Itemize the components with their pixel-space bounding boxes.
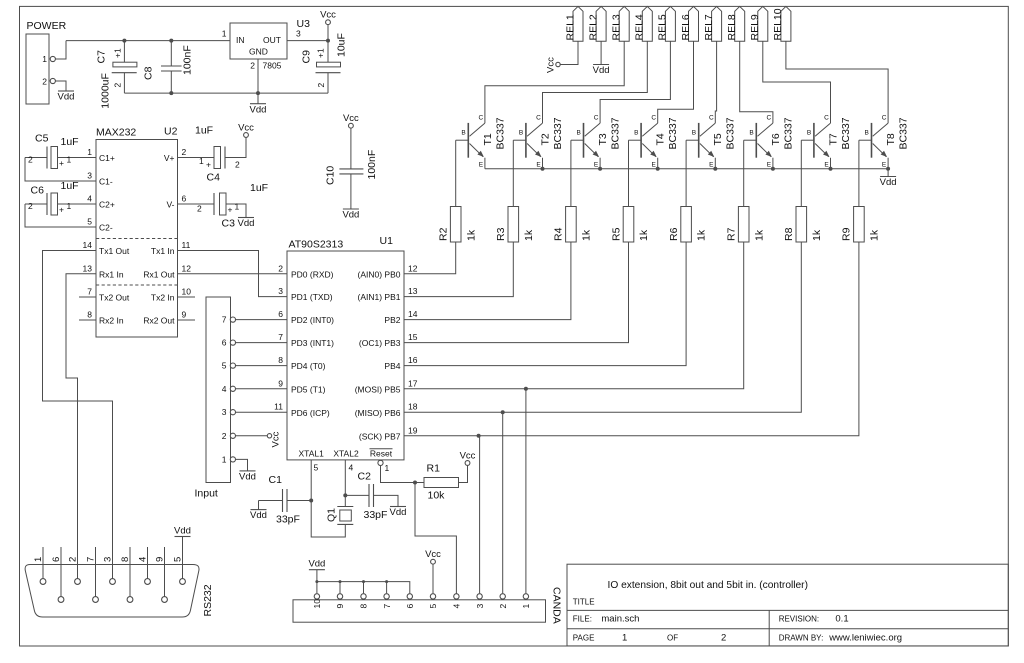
- RS232 pin circle 1: [40, 579, 46, 585]
- svg-text:PD6 (ICP): PD6 (ICP): [291, 408, 330, 418]
- svg-text:33pF: 33pF: [364, 509, 388, 521]
- svg-text:1: 1: [222, 454, 227, 464]
- wire REL9 to T7 collector: [763, 41, 831, 123]
- svg-text:Input: Input: [195, 488, 218, 500]
- svg-text:Vcc: Vcc: [271, 431, 282, 447]
- CANDA pin circle 9: [337, 594, 342, 599]
- svg-text:+: +: [206, 160, 211, 170]
- CANDA pin circle 7: [384, 594, 389, 599]
- svg-text:PD5 (T1): PD5 (T1): [291, 384, 326, 394]
- wire rail to Vdd: [887, 169, 889, 177]
- svg-text:C6: C6: [31, 185, 45, 197]
- svg-text:9: 9: [182, 310, 187, 320]
- wire 7805 OUT to Vcc node: [287, 40, 328, 42]
- svg-text:2: 2: [197, 204, 202, 214]
- svg-text:7: 7: [222, 315, 227, 325]
- svg-text:(MOSI) PB5: (MOSI) PB5: [355, 384, 401, 394]
- svg-text:Vcc: Vcc: [320, 10, 336, 21]
- junction Vdd bus pin 10: [315, 580, 318, 583]
- svg-text:C7: C7: [96, 50, 108, 64]
- wire PB0 to R2: [404, 242, 456, 274]
- svg-text:7: 7: [278, 332, 283, 342]
- svg-text:Q1: Q1: [326, 508, 338, 522]
- svg-text:1k: 1k: [581, 229, 593, 241]
- CANDA pin circle 1: [523, 594, 528, 599]
- connector pin REL9: [749, 6, 768, 41]
- svg-text:R7: R7: [726, 227, 738, 241]
- wire POWER pin2 to Vdd: [55, 81, 66, 91]
- svg-text:B: B: [461, 130, 465, 137]
- RS232 pin circle 4: [145, 579, 151, 585]
- power Vcc (Input pin 2): [267, 434, 271, 438]
- svg-text:3: 3: [296, 29, 301, 39]
- svg-text:+1: +1: [316, 48, 326, 58]
- wire REL7 to T5 collector: [715, 41, 716, 123]
- junction PB5/CANDA1: [524, 387, 528, 391]
- wire stub pin10 Tx2 In: [178, 296, 196, 298]
- wire XTAL1 down: [310, 460, 312, 501]
- svg-text:E: E: [479, 162, 484, 169]
- svg-text:REVISION:: REVISION:: [779, 615, 819, 624]
- lead pin2 (already wired above): [77, 547, 79, 579]
- svg-text:OUT: OUT: [263, 35, 281, 45]
- svg-text:Vdd: Vdd: [593, 65, 610, 76]
- svg-text:10k: 10k: [428, 490, 446, 502]
- capacitor C10 100nF: [325, 128, 378, 209]
- svg-text:C2-: C2-: [99, 223, 113, 233]
- svg-text:PD0 (RXD): PD0 (RXD): [291, 269, 334, 279]
- wire Reset node to CANDA pin 4: [415, 483, 456, 597]
- svg-text:BC337: BC337: [782, 117, 794, 149]
- junction emitter rail: [656, 167, 660, 171]
- svg-text:B: B: [519, 130, 523, 137]
- svg-text:B: B: [865, 130, 869, 137]
- svg-text:B: B: [692, 130, 696, 137]
- svg-text:1: 1: [67, 201, 72, 211]
- junction Vdd bus pin 7: [385, 580, 388, 583]
- wire REL1 to Vcc: [560, 41, 578, 64]
- junction GND/bottom rail: [256, 91, 260, 95]
- svg-text:2: 2: [250, 61, 255, 71]
- svg-text:5: 5: [428, 604, 438, 609]
- svg-text:9: 9: [335, 604, 345, 609]
- svg-text:R8: R8: [783, 227, 795, 241]
- junction C7/top rail: [122, 39, 126, 43]
- wire C1 left to Vdd: [258, 501, 260, 510]
- svg-text:T3: T3: [597, 133, 609, 145]
- svg-text:7805: 7805: [263, 61, 282, 71]
- svg-text:C3: C3: [222, 218, 236, 230]
- svg-text:FILE:: FILE:: [573, 615, 592, 624]
- wire CANDA pin 2 to PB6 net: [502, 412, 504, 593]
- svg-text:REL6: REL6: [680, 14, 692, 40]
- svg-text:BC337: BC337: [494, 117, 506, 149]
- RS232 pin circle 8: [127, 597, 133, 603]
- svg-text:R2: R2: [438, 227, 450, 241]
- svg-text:MAX232: MAX232: [96, 127, 136, 139]
- svg-text:C: C: [536, 115, 541, 122]
- svg-text:C1+: C1+: [99, 153, 115, 163]
- svg-text:E: E: [882, 162, 887, 169]
- svg-text:14: 14: [83, 240, 93, 250]
- wire Input pin 3 to U1 PD6: [235, 411, 287, 413]
- svg-text:Vdd: Vdd: [238, 218, 255, 229]
- ground Vdd (POWER pin2): [58, 91, 75, 103]
- svg-text:Vdd: Vdd: [250, 104, 267, 115]
- svg-text:REL9: REL9: [749, 14, 761, 40]
- RS232 pin circle 9: [162, 597, 168, 603]
- wire REL2 to Vdd: [600, 41, 602, 64]
- svg-text:DRAWN BY:: DRAWN BY:: [779, 633, 824, 642]
- wire stub pin9 Rx2 Out: [178, 319, 196, 321]
- svg-text:+: +: [59, 205, 64, 215]
- svg-text:Vdd: Vdd: [308, 559, 325, 570]
- svg-text:C4: C4: [207, 172, 221, 184]
- resistor R5 1k: [610, 140, 650, 242]
- svg-text:Vdd: Vdd: [174, 525, 191, 536]
- connector pin REL4: [634, 6, 653, 41]
- svg-text:T6: T6: [770, 133, 782, 145]
- svg-text:2: 2: [498, 604, 508, 609]
- wire XTAL2 down: [344, 460, 346, 496]
- svg-text:4: 4: [452, 604, 462, 609]
- svg-text:REL5: REL5: [657, 14, 669, 40]
- wire supply rail to 7805 IN: [66, 40, 230, 42]
- wire Rx1 Out to PD0 (RXD): [178, 273, 288, 275]
- svg-text:4: 4: [349, 463, 354, 473]
- svg-text:4: 4: [222, 384, 227, 394]
- svg-text:7: 7: [382, 604, 392, 609]
- svg-text:Reset: Reset: [370, 449, 393, 459]
- capacitor C9 10uF: [301, 33, 348, 93]
- svg-text:(AIN1) PB1: (AIN1) PB1: [358, 292, 401, 302]
- svg-text:1k: 1k: [696, 229, 708, 241]
- svg-text:C8: C8: [143, 66, 155, 80]
- svg-text:Tx2 Out: Tx2 Out: [99, 293, 130, 303]
- Input pin circle 3: [230, 410, 235, 415]
- resistor R6 1k: [668, 140, 708, 242]
- svg-text:RS232: RS232: [202, 584, 214, 616]
- svg-text:REL2: REL2: [587, 14, 599, 40]
- svg-text:Rx2 In: Rx2 In: [99, 316, 124, 326]
- svg-text:1: 1: [42, 54, 47, 64]
- capacitor C4 1uF: [178, 125, 247, 184]
- svg-text:8: 8: [278, 355, 283, 365]
- svg-text:Vcc: Vcc: [238, 123, 254, 134]
- svg-text:C: C: [594, 115, 599, 122]
- wire PB6 to R8: [404, 242, 801, 412]
- svg-text:+1: +1: [113, 48, 123, 58]
- junction XTAL2/C2/Q1: [343, 493, 347, 497]
- svg-text:1: 1: [87, 147, 92, 157]
- wire PB5 to R7: [404, 242, 744, 389]
- svg-text:19: 19: [408, 425, 418, 435]
- svg-text:1k: 1k: [523, 229, 535, 241]
- svg-text:11: 11: [274, 402, 283, 412]
- junction emitter rail: [541, 167, 545, 171]
- svg-text:CANDA: CANDA: [551, 587, 563, 624]
- svg-text:E: E: [824, 162, 829, 169]
- svg-text:12: 12: [408, 263, 418, 273]
- IC U1 AT90S2313: [274, 235, 418, 473]
- connector pin REL5: [657, 6, 676, 41]
- connector CANDA: [293, 587, 563, 624]
- connector pin REL1: [564, 6, 583, 41]
- capacitor C7 1000uF: [96, 41, 137, 109]
- ground Vdd (Input pin 1): [239, 471, 256, 483]
- svg-text:(AIN0) PB0: (AIN0) PB0: [358, 269, 401, 279]
- svg-text:IN: IN: [236, 35, 245, 45]
- svg-text:1uF: 1uF: [195, 125, 213, 137]
- wire XTAL1/C1 to Q1 bottom: [311, 501, 345, 538]
- CANDA pin circle 10: [314, 594, 319, 599]
- connector pin REL10: [772, 6, 791, 41]
- svg-text:1: 1: [521, 604, 531, 609]
- svg-text:1000uF: 1000uF: [100, 73, 112, 109]
- svg-text:E: E: [594, 162, 599, 169]
- svg-text:2: 2: [28, 201, 33, 211]
- POWER pin 2: [50, 78, 55, 83]
- svg-text:V+: V+: [164, 153, 175, 163]
- RS232 pin circle 5: [180, 579, 186, 585]
- svg-text:100nF: 100nF: [366, 150, 378, 180]
- transistor T8 BC337: [859, 115, 910, 169]
- svg-text:C9: C9: [301, 50, 313, 64]
- wire Tx1 In to PD1 (TXD): [178, 251, 288, 297]
- wire Reset to R1: [381, 466, 416, 483]
- RS232 pin circle 7: [93, 597, 99, 603]
- svg-text:Vdd: Vdd: [250, 510, 267, 521]
- wire ground rail under 7805: [124, 92, 328, 94]
- svg-text:C2: C2: [358, 471, 372, 483]
- wire stub pin7 Tx2 Out: [79, 296, 96, 298]
- svg-text:T8: T8: [885, 133, 897, 145]
- wire stub pin8 Rx2 In: [79, 319, 96, 321]
- RS232 pin circle 2: [75, 579, 81, 585]
- svg-text:5: 5: [87, 217, 92, 227]
- RS232 pin leads: [42, 547, 44, 579]
- svg-text:C1: C1: [269, 474, 283, 486]
- svg-text:6: 6: [278, 309, 283, 319]
- svg-text:Vcc: Vcc: [546, 57, 557, 73]
- svg-text:5: 5: [314, 463, 319, 473]
- svg-text:14: 14: [408, 309, 418, 319]
- ground Vdd (C2): [390, 507, 407, 519]
- svg-text:3: 3: [475, 604, 485, 609]
- svg-text:IO extension, 8bit out and 5bi: IO extension, 8bit out and 5bit in. (con…: [608, 580, 808, 591]
- svg-text:3: 3: [222, 407, 227, 417]
- svg-text:Rx1 Out: Rx1 Out: [143, 269, 175, 279]
- power Vcc (C4): [238, 123, 254, 138]
- junction C8/top rail: [169, 39, 173, 43]
- svg-text:9: 9: [278, 378, 283, 388]
- svg-text:Rx2 Out: Rx2 Out: [143, 316, 175, 326]
- connector POWER: [26, 20, 67, 104]
- svg-text:XTAL2: XTAL2: [333, 449, 359, 459]
- svg-text:B: B: [749, 130, 753, 137]
- svg-text:1k: 1k: [811, 229, 823, 241]
- ground Vdd (REL2): [593, 65, 610, 77]
- Input pin circle 2: [230, 433, 235, 438]
- junction emitter rail: [713, 167, 717, 171]
- wire CANDA pin 3 to PB7 net: [479, 436, 481, 593]
- transistor T5 BC337: [686, 115, 737, 169]
- svg-text:R9: R9: [841, 227, 853, 241]
- junction emitter rail: [598, 167, 602, 171]
- Input pin circle 5: [230, 363, 235, 368]
- transistor T3 BC337: [571, 115, 622, 169]
- svg-text:5: 5: [222, 361, 227, 371]
- wire Vdd bus to CANDA pins 10-6: [316, 582, 318, 594]
- wire PB3 to R5: [404, 242, 629, 343]
- svg-text:REL1: REL1: [564, 14, 576, 40]
- svg-text:1k: 1k: [753, 229, 765, 241]
- svg-text:3: 3: [87, 171, 92, 181]
- svg-text:15: 15: [408, 332, 418, 342]
- svg-text:10: 10: [312, 599, 322, 609]
- lead pin5 to Vdd: [182, 537, 184, 579]
- svg-text:2: 2: [222, 431, 227, 441]
- svg-text:2: 2: [278, 263, 283, 273]
- svg-text:6: 6: [405, 604, 415, 609]
- svg-text:6: 6: [51, 557, 62, 562]
- svg-text:5: 5: [172, 557, 183, 562]
- wire to Vdd symbol: [257, 93, 259, 104]
- wire REL5 to T3 collector: [600, 41, 670, 123]
- connector Input: [195, 297, 231, 500]
- wire Input pin 7 to U1 PD2: [235, 319, 287, 321]
- svg-text:C: C: [709, 115, 714, 122]
- crystal Q1: [326, 495, 354, 524]
- wire Vcc stub: [327, 24, 329, 40]
- wire Input pin 2 to Vcc: [235, 435, 267, 437]
- wire emitter rail: [485, 168, 888, 170]
- transistor T1 BC337: [456, 115, 507, 169]
- svg-text:C: C: [651, 115, 656, 122]
- svg-text:17: 17: [408, 378, 418, 388]
- svg-text:10: 10: [182, 287, 192, 297]
- transistor T6 BC337: [744, 115, 795, 169]
- wire Input pin 1 to Vdd: [235, 459, 247, 471]
- svg-text:1uF: 1uF: [61, 180, 79, 192]
- svg-text:6: 6: [222, 338, 227, 348]
- svg-text:1uF: 1uF: [250, 182, 268, 194]
- svg-text:13: 13: [83, 263, 93, 273]
- svg-text:8: 8: [359, 604, 369, 609]
- svg-text:PD1 (TXD): PD1 (TXD): [291, 292, 333, 302]
- capacitor C5 1uF: [25, 133, 96, 182]
- svg-text:U2: U2: [164, 126, 178, 138]
- wire POWER pin1 up to supply rail: [55, 41, 66, 59]
- svg-text:E: E: [709, 162, 714, 169]
- wire Input pin 5 to U1 PD4: [235, 365, 287, 367]
- svg-text:PB4: PB4: [384, 361, 400, 371]
- svg-text:www.leniwiec.org: www.leniwiec.org: [828, 632, 902, 643]
- svg-text:R1: R1: [427, 463, 441, 475]
- svg-text:100nF: 100nF: [182, 45, 194, 75]
- svg-text:Vcc: Vcc: [460, 451, 476, 462]
- Input pin circle 7: [230, 317, 235, 322]
- svg-text:PD2 (INT0): PD2 (INT0): [291, 315, 334, 325]
- junction C8/bottom rail: [169, 91, 173, 95]
- ground Vdd (CANDA bus): [308, 559, 325, 570]
- svg-text:PD4 (T0): PD4 (T0): [291, 361, 326, 371]
- Input pin circle 4: [230, 386, 235, 391]
- svg-text:R4: R4: [553, 227, 565, 241]
- wire REL8 to T6 collector: [740, 41, 773, 123]
- regulator U3 7805: [222, 18, 310, 71]
- svg-text:GND: GND: [249, 47, 268, 57]
- power Vcc (7805 output): [320, 10, 336, 25]
- svg-text:Rx1 In: Rx1 In: [99, 269, 124, 279]
- svg-text:E: E: [767, 162, 772, 169]
- svg-text:REL3: REL3: [611, 14, 623, 40]
- svg-text:PD3 (INT1): PD3 (INT1): [291, 338, 334, 348]
- svg-text:11: 11: [182, 240, 191, 250]
- svg-text:T2: T2: [539, 133, 551, 145]
- svg-text:(SCK) PB7: (SCK) PB7: [359, 431, 401, 441]
- svg-text:main.sch: main.sch: [601, 614, 639, 625]
- capacitor C3 1uF: [178, 182, 269, 230]
- RS232 pin circle 6: [58, 597, 64, 603]
- svg-text:R6: R6: [668, 227, 680, 241]
- CANDA pin circle 6: [407, 594, 412, 599]
- connector pin REL6: [680, 6, 699, 41]
- svg-text:3: 3: [278, 286, 283, 296]
- svg-text:AT90S2313: AT90S2313: [289, 239, 344, 251]
- svg-text:Tx1 In: Tx1 In: [151, 246, 175, 256]
- transistor T4 BC337: [629, 115, 680, 169]
- svg-text:B: B: [577, 130, 581, 137]
- connector pin REL3: [611, 6, 630, 41]
- junction Vdd bus pin 9: [339, 580, 342, 583]
- svg-text:+: +: [228, 205, 233, 215]
- POWER pin 1: [50, 56, 55, 61]
- svg-text:1k: 1k: [869, 229, 881, 241]
- ground Vdd (C3): [238, 218, 255, 230]
- U1 Reset pin circle: [378, 460, 383, 465]
- wire CANDA pin 5 to Vcc: [432, 564, 434, 593]
- ground Vdd (C10): [342, 209, 359, 221]
- svg-text:T7: T7: [827, 133, 839, 145]
- svg-text:C10: C10: [325, 166, 337, 185]
- svg-text:BC337: BC337: [898, 117, 910, 149]
- junction emitter rail: [886, 167, 890, 171]
- svg-text:REL10: REL10: [772, 8, 784, 40]
- power Vcc (C10): [343, 113, 359, 128]
- wire bus to Vdd: [316, 570, 318, 582]
- resistor R1 10k: [415, 463, 468, 502]
- svg-text:2: 2: [721, 632, 726, 643]
- power Vcc (REL1): [556, 62, 560, 66]
- svg-text:1: 1: [235, 202, 240, 212]
- ground Vdd (RS232 pin 5): [174, 525, 191, 536]
- svg-text:E: E: [652, 162, 657, 169]
- svg-text:1: 1: [385, 463, 390, 473]
- svg-text:1: 1: [222, 29, 227, 39]
- title block: [567, 564, 1008, 646]
- power Vcc (R1): [460, 451, 476, 466]
- wire 7805 GND down: [257, 59, 259, 93]
- RS232 pin circle 3: [110, 579, 116, 585]
- svg-text:Tx1 Out: Tx1 Out: [99, 246, 130, 256]
- svg-text:BC337: BC337: [667, 117, 679, 149]
- svg-text:2: 2: [316, 83, 326, 88]
- wire PB2 to R4: [404, 242, 571, 320]
- connector RS232 DB9 shell: [25, 565, 199, 618]
- svg-text:2: 2: [42, 77, 47, 87]
- svg-text:2: 2: [235, 160, 240, 170]
